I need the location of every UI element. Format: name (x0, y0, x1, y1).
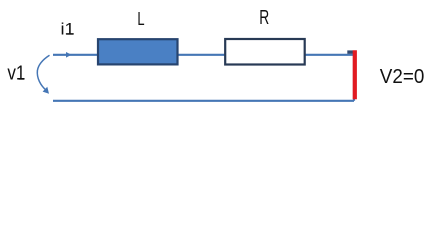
svg-text:V2=0: V2=0 (380, 65, 425, 88)
svg-text:v1: v1 (7, 63, 25, 85)
svg-text:L: L (137, 8, 144, 29)
svg-text:i1: i1 (61, 21, 75, 39)
svg-text:R: R (259, 7, 269, 29)
